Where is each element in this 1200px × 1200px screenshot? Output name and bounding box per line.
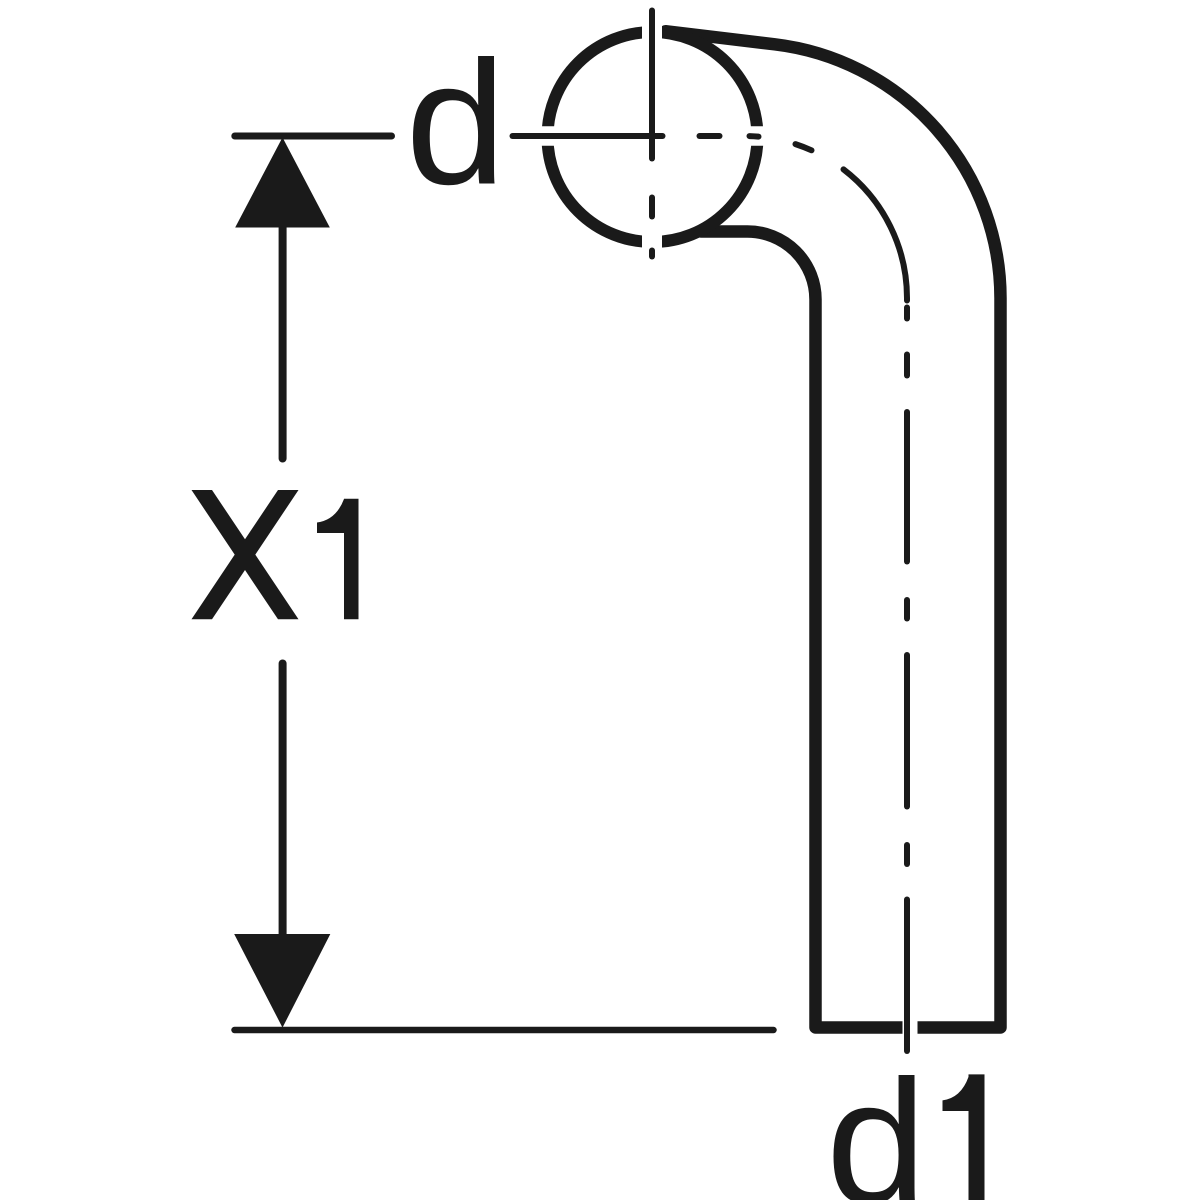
dimension X1 vertical line upper segment [279, 224, 287, 459]
pipe centerline long dash [904, 655, 910, 807]
pipe centerline long dash around bend [844, 169, 908, 300]
pipe centerline short dash [904, 600, 910, 619]
white halo over horizontal centerline of circle [522, 126, 780, 146]
label d1 glyph 1 [943, 1074, 985, 1200]
label X1 glyph X [192, 490, 299, 619]
white halo for centerline gap in pipe bottom end [903, 1012, 918, 1044]
pipe bend outline [666, 31, 1001, 1027]
label X1 glyph 1 [317, 499, 359, 620]
pipe centerline dash [700, 133, 720, 139]
label d1 glyph d [826, 1043, 927, 1200]
dimension extension line top (level of d) [235, 133, 392, 140]
pipe centerline dash on bend [796, 144, 812, 150]
pipe centerline dot at circle edge [750, 133, 759, 140]
svg-text:d: d [826, 1043, 927, 1200]
svg-text:d: d [405, 24, 506, 221]
arrowhead down [235, 935, 330, 1027]
socket circle (pipe opening, diameter d) [548, 32, 758, 242]
label d [405, 24, 506, 221]
pipe centerline long dash to below pipe end [904, 900, 910, 1052]
pipe centerline long dash [904, 412, 910, 562]
dimension X1 vertical line lower segment [279, 664, 287, 938]
pipe centerline long dash through circle [513, 133, 663, 139]
circle vertical centerline dot [649, 251, 655, 257]
circle vertical centerline short dash [649, 198, 655, 217]
pipe centerline short dash [904, 355, 910, 376]
pipe centerline short dash [904, 845, 910, 864]
circle vertical centerline long dash [649, 11, 655, 159]
arrowhead up [236, 139, 329, 228]
dimension baseline bottom [235, 1027, 774, 1034]
white halo over vertical centerline of circle [642, 6, 662, 268]
pipe centerline dot [904, 308, 910, 319]
